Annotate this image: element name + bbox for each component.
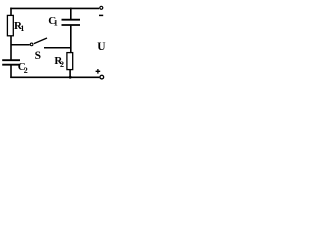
svg-text:1: 1 [54,19,58,28]
svg-text:2: 2 [60,60,64,69]
svg-text:1: 1 [20,24,24,33]
svg-text:2: 2 [24,66,28,75]
svg-text:S: S [35,50,41,62]
svg-text:U: U [97,41,106,53]
